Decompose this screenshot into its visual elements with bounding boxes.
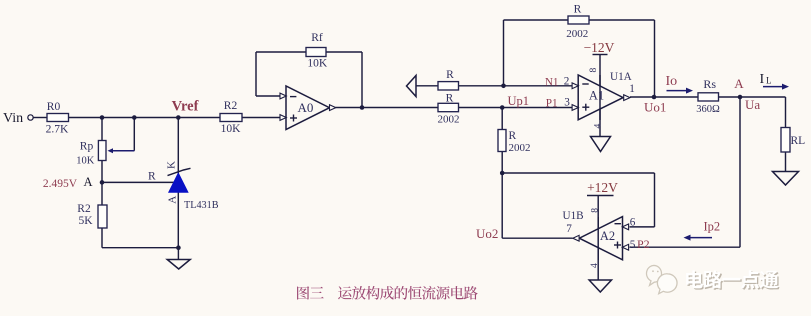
svg-text:K: K (166, 161, 178, 169)
svg-text:5: 5 (630, 239, 636, 251)
svg-text:A: A (167, 196, 179, 204)
svg-text:10K: 10K (221, 123, 242, 135)
svg-text:Ua: Ua (745, 97, 760, 112)
svg-text:360Ω: 360Ω (696, 104, 720, 115)
svg-text:8: 8 (590, 208, 600, 213)
svg-text:5K: 5K (78, 215, 93, 227)
svg-text:R2: R2 (224, 100, 238, 112)
svg-text:10K: 10K (76, 156, 95, 167)
svg-text:RL: RL (791, 135, 806, 147)
svg-text:Vref: Vref (172, 99, 199, 115)
svg-text:1: 1 (629, 83, 635, 95)
svg-text:4: 4 (590, 263, 600, 268)
svg-text:R: R (446, 69, 454, 81)
svg-text:L: L (766, 76, 772, 86)
svg-text:3: 3 (564, 97, 570, 109)
svg-text:+12V: +12V (587, 180, 618, 195)
svg-text:Rf: Rf (311, 32, 323, 44)
svg-text:−12V: −12V (584, 40, 615, 55)
svg-text:2: 2 (564, 76, 570, 88)
svg-text:R2: R2 (77, 203, 91, 215)
svg-text:10K: 10K (307, 58, 328, 70)
svg-text:R0: R0 (47, 101, 61, 113)
svg-text:A0: A0 (298, 100, 314, 115)
svg-text:A: A (734, 76, 744, 91)
svg-text:U1B: U1B (563, 210, 584, 222)
svg-text:Up1: Up1 (508, 94, 530, 108)
svg-text:R: R (148, 171, 156, 183)
svg-text:4: 4 (594, 124, 604, 129)
svg-text:TL431B: TL431B (184, 200, 219, 211)
svg-text:2.495V: 2.495V (43, 178, 78, 190)
svg-text:7: 7 (566, 223, 572, 235)
svg-text:2002: 2002 (566, 28, 588, 40)
svg-text:6: 6 (630, 217, 636, 229)
svg-text:Uo2: Uo2 (476, 226, 498, 241)
svg-text:R: R (509, 130, 517, 142)
svg-text:2.7K: 2.7K (46, 124, 69, 136)
svg-text:N1: N1 (545, 77, 559, 89)
svg-text:U1A: U1A (610, 71, 632, 83)
svg-text:I: I (760, 72, 765, 87)
svg-text:A2: A2 (600, 229, 615, 243)
svg-text:R: R (574, 4, 582, 16)
svg-text:8: 8 (589, 68, 599, 73)
svg-text:A1: A1 (589, 89, 604, 103)
svg-text:P1: P1 (546, 98, 558, 110)
svg-text:A: A (83, 175, 92, 189)
svg-text:Rs: Rs (703, 77, 716, 91)
svg-text:2002: 2002 (438, 114, 460, 126)
svg-text:Uo1: Uo1 (644, 100, 666, 115)
svg-text:Ip2: Ip2 (704, 220, 721, 234)
svg-text:P2: P2 (637, 237, 650, 251)
svg-text:Io: Io (666, 74, 678, 89)
svg-text:R: R (446, 93, 454, 105)
svg-text:Vin: Vin (3, 111, 23, 126)
svg-text:Rp: Rp (80, 141, 94, 153)
svg-text:2002: 2002 (509, 142, 531, 154)
